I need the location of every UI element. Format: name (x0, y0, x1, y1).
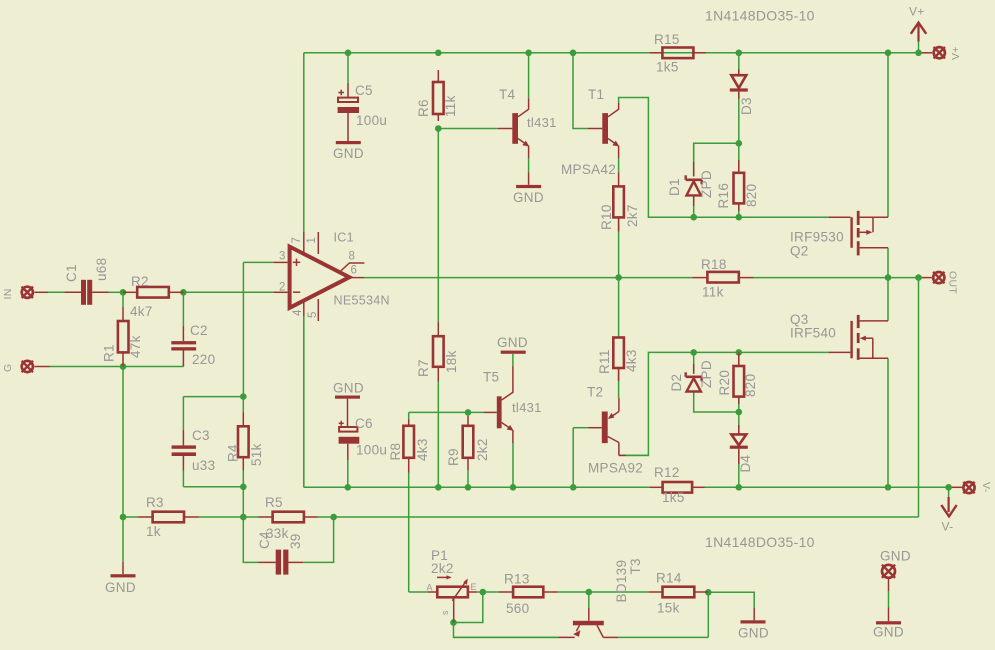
label T2 (587, 385, 603, 400)
svg-text:T3: T3 (628, 558, 643, 574)
svg-text:IRF9530: IRF9530 (790, 230, 844, 245)
wire T3 base drop (588, 592, 590, 608)
label Q2 (790, 244, 809, 259)
value 560 (506, 601, 529, 616)
label A (427, 583, 433, 593)
wire R3-R5 segment (123, 516, 259, 518)
svg-text:GND: GND (333, 146, 364, 161)
svg-text:R8: R8 (388, 443, 403, 461)
connector pad OUT (933, 272, 944, 283)
wire D3 column (738, 53, 740, 144)
wire R4 bottom node (242, 397, 244, 517)
wire Q3 source to V- rail (887, 358, 889, 487)
wire R8 to P1 (409, 473, 428, 592)
ground GND C5 (333, 141, 364, 161)
wire R13 to T3 base (558, 591, 589, 593)
wire R9 column (467, 412, 469, 487)
svg-text:GND: GND (497, 335, 528, 350)
svg-text:V-: V- (980, 482, 992, 493)
wire R14 right to GND (708, 592, 754, 608)
ground GND float (873, 621, 904, 639)
value u33 (192, 458, 215, 473)
svg-text:C5: C5 (355, 83, 373, 98)
svg-text:D1: D1 (667, 178, 682, 196)
value 51k (249, 443, 264, 466)
svg-text:11k: 11k (702, 285, 724, 300)
capacitor C2 (171, 326, 196, 367)
label IRF9530 (790, 230, 844, 245)
svg-text:8: 8 (349, 251, 356, 263)
svg-text:2k7: 2k7 (625, 204, 640, 227)
junction V- rail / T5 (510, 484, 517, 491)
label R1 (102, 344, 117, 362)
label E (471, 582, 477, 592)
svg-text:100u: 100u (356, 113, 387, 128)
svg-text:5: 5 (307, 311, 319, 318)
svg-text:MPSA42: MPSA42 (561, 162, 616, 177)
value ZPD D2 (699, 360, 714, 388)
ground GND T4 (513, 185, 544, 205)
svg-text:4k7: 4k7 (130, 304, 153, 319)
wire R13 line (498, 591, 500, 593)
label IC1 (334, 231, 354, 245)
value 11k (443, 95, 458, 117)
svg-text:IRF540: IRF540 (790, 326, 836, 341)
junction OUT rail / Q2-Q3 drains (885, 274, 892, 281)
resistor R12 (650, 482, 705, 493)
label R8 (388, 443, 403, 461)
junction V- rail / D4 (736, 484, 743, 491)
wire -input line (183, 291, 274, 293)
svg-text:ZPD: ZPD (699, 170, 714, 198)
transistor T3 (454, 608, 619, 637)
svg-text:GND: GND (880, 549, 911, 564)
label R4 (226, 444, 241, 462)
wire D2 column (694, 352, 739, 412)
wire C3 bottom link (183, 471, 243, 487)
capacitor C3 (172, 430, 196, 471)
junction OUT rail / feedback (915, 274, 922, 281)
value MPSA42 (561, 162, 616, 177)
svg-text:GND: GND (105, 580, 136, 595)
label C2 (190, 323, 208, 338)
svg-text:4k3: 4k3 (624, 349, 639, 372)
svg-text:D3: D3 (739, 97, 754, 115)
value MPSA92 (588, 461, 643, 476)
junction feedback / R3 left (120, 514, 127, 521)
value 2k7 (625, 204, 640, 227)
label C6 (355, 416, 373, 431)
label D2 (669, 374, 684, 392)
svg-text:R13: R13 (504, 572, 530, 587)
svg-text:C3: C3 (192, 428, 210, 443)
label V- bottom (942, 520, 954, 534)
wire V+ rail pad stub (919, 52, 933, 54)
label 1N4148DO35-10 top (705, 8, 815, 24)
connector pad V+ (934, 47, 945, 58)
junction V+ rail / Q2 source (885, 50, 892, 57)
connector pad G (22, 361, 50, 372)
svg-text:R12: R12 (654, 465, 680, 480)
svg-text:OUT: OUT (947, 271, 959, 294)
label R16 (716, 183, 731, 209)
pin 2 (279, 282, 286, 294)
svg-text:GND: GND (333, 381, 364, 396)
svg-text:1k5: 1k5 (656, 60, 679, 75)
svg-text:tl431: tl431 (527, 115, 557, 130)
resistor R1 (118, 307, 129, 367)
value 39 (288, 533, 303, 549)
wire OUT rail (364, 277, 919, 279)
label G (2, 364, 14, 372)
label R15 (654, 32, 680, 47)
svg-text:51k: 51k (249, 443, 264, 466)
junction V+ rail / C5 (345, 50, 352, 57)
value 820 R20 (743, 374, 758, 397)
potentiometer P1 (428, 575, 477, 622)
label V- pad (980, 482, 992, 493)
svg-text:R9: R9 (446, 448, 461, 466)
svg-text:GND: GND (873, 625, 904, 640)
wire R11 to T2 emitter (618, 368, 620, 398)
wire OUT pad stub (919, 277, 932, 279)
label R7 (416, 359, 431, 377)
svg-text:4: 4 (292, 309, 304, 316)
wire G line (50, 366, 184, 368)
transistor T2 (589, 398, 649, 456)
label 1N4148DO35-10 bottom (705, 534, 815, 550)
junction feedback / R5-C4 (330, 514, 337, 521)
junction op-amp +input node (240, 393, 247, 400)
wire OUT to Q3 drain (887, 278, 889, 321)
svg-text:R11: R11 (597, 349, 612, 374)
wire C2 column (182, 292, 184, 366)
resistor R15 (650, 48, 706, 59)
wire C6 bottom (347, 460, 349, 487)
svg-text:u33: u33 (192, 458, 215, 473)
resistor R18 (692, 272, 754, 283)
svg-text:ZPD: ZPD (699, 360, 714, 388)
svg-text:V-: V- (942, 520, 954, 534)
supply arrow V- (941, 487, 956, 516)
junction gate2 line / D2 (690, 349, 697, 356)
pin 6 (351, 265, 358, 277)
label T1 (588, 87, 604, 102)
wire Q2 source riser (887, 53, 889, 217)
svg-text:R5: R5 (265, 495, 283, 510)
svg-text:T4: T4 (499, 87, 516, 102)
svg-text:1k5: 1k5 (662, 490, 685, 505)
pin 3 (279, 251, 286, 263)
wire T5 collector to GND (512, 354, 514, 366)
mosfet Q3 (829, 315, 888, 360)
junction V+ rail / T4 collector (525, 50, 532, 57)
diode D3 (730, 69, 748, 99)
svg-text:220: 220 (192, 352, 215, 367)
label R5 (265, 495, 283, 510)
value 100u (356, 113, 387, 128)
label R18 (701, 257, 727, 272)
label P1 (431, 548, 448, 563)
junction feedback / R4-C4 (240, 514, 247, 521)
svg-text:G: G (2, 364, 14, 372)
junction V- rail / T2 base (570, 484, 577, 491)
wire T4 collector riser (528, 53, 530, 98)
value 4k3 R8 (415, 438, 430, 461)
wire R8-R9-T5 base line (409, 412, 484, 419)
svg-text:R1: R1 (102, 344, 117, 362)
value 15k (657, 601, 680, 616)
svg-text:C2: C2 (190, 323, 208, 338)
svg-text:C6: C6 (355, 416, 373, 431)
svg-text:GND: GND (738, 626, 769, 641)
wire T5 emitter down (512, 443, 514, 487)
junction V+ rail / R6 (435, 50, 442, 57)
resistor R3 (138, 512, 198, 523)
svg-text:2: 2 (279, 282, 286, 294)
svg-text:E: E (471, 582, 477, 592)
label C4 (257, 531, 272, 549)
junction gate line / D1 (690, 214, 697, 221)
label NE5534N (334, 294, 390, 308)
wire R11 column (618, 278, 620, 338)
svg-text:T1: T1 (588, 87, 604, 102)
junction gate2 line / R20 (736, 349, 743, 356)
label C5 (355, 83, 373, 98)
ground GND T5 top (497, 335, 528, 354)
wire D1 column (693, 143, 695, 217)
op-amp IC1 (274, 232, 364, 321)
svg-text:IC1: IC1 (334, 231, 354, 245)
junction D2-R20 bottom (736, 409, 743, 416)
svg-text:1N4148DO35-10: 1N4148DO35-10 (705, 534, 815, 550)
value 2k2 P1 (431, 561, 454, 576)
svg-text:R7: R7 (416, 359, 431, 377)
resistor R7 (433, 322, 444, 382)
junction V+ rail / D3 (736, 50, 743, 57)
label D3 (739, 97, 754, 115)
ground GND C6 top (333, 381, 364, 428)
resistor R16 (734, 160, 745, 211)
label R20 (717, 370, 732, 396)
label T5 (483, 370, 499, 385)
wire T1 base to V+ rail (573, 53, 588, 129)
junction R14 right (705, 589, 712, 596)
svg-text:D4: D4 (738, 454, 753, 472)
resistor R10 (613, 186, 624, 231)
value 1k5 R12 (662, 490, 685, 505)
value 820 (744, 184, 759, 207)
label R11 (597, 349, 612, 374)
svg-text:3: 3 (279, 251, 286, 263)
svg-text:s: s (440, 610, 450, 615)
resistor R9 (463, 416, 474, 470)
junction input node R2-C2 (180, 289, 187, 296)
label D1 (667, 178, 682, 196)
value 1k5 (656, 60, 679, 75)
label IRF540 (790, 326, 836, 341)
label R9 (446, 448, 461, 466)
wire T4 base line (438, 128, 498, 130)
junction P1 S (450, 619, 457, 626)
junction D3 bottom / R16 top (736, 140, 743, 147)
label IN (2, 288, 14, 299)
wire V+ rail (304, 53, 925, 232)
zener diode D2 (686, 364, 702, 392)
wire C5 stem (347, 53, 349, 83)
label R6 (416, 99, 431, 117)
svg-text:V+: V+ (950, 46, 962, 60)
label V+ pad (950, 46, 962, 60)
svg-text:T5: T5 (483, 370, 499, 385)
junction V- rail / R7 (435, 484, 442, 491)
junction V- rail / supply arrow (945, 484, 952, 491)
value tl431 T5 (512, 400, 542, 415)
junction V+ rail / supply arrow (915, 50, 922, 57)
svg-text:R2: R2 (131, 274, 149, 289)
svg-text:18k: 18k (444, 350, 459, 373)
resistor R13 (483, 587, 558, 598)
ground GND bottom-left (111, 562, 136, 578)
label R14 (656, 571, 682, 586)
value tl431 T4 (527, 115, 557, 130)
value ZPD D1 (699, 170, 714, 198)
svg-text:1: 1 (306, 237, 318, 244)
supply arrow V+ (911, 23, 926, 53)
value 2k2 R9 (475, 438, 490, 461)
junction G / R1 bottom (120, 363, 127, 370)
value 4k3 R11 (624, 349, 639, 372)
label C1 (64, 264, 79, 282)
connector pad V- (963, 482, 974, 493)
label T3 (628, 558, 643, 574)
wire T3 collector to R14 right (618, 592, 708, 637)
value 11k (702, 285, 724, 300)
svg-text:u68: u68 (94, 258, 109, 281)
svg-text:D2: D2 (669, 374, 684, 392)
svg-text:7: 7 (291, 237, 303, 244)
wire R7 bottom to V- rail (437, 382, 439, 488)
resistor R8 (403, 420, 414, 473)
junction V- rail / Q3 source (885, 484, 892, 491)
junction V- rail / R9 (465, 484, 472, 491)
value 47k (128, 335, 143, 358)
junction V- rail / C6 (345, 484, 352, 491)
label R3 (146, 495, 164, 510)
svg-text:R6: R6 (416, 99, 431, 117)
value 18k (444, 350, 459, 373)
connector pad GND float (882, 565, 895, 622)
value 220 (192, 352, 215, 367)
pin 5 (307, 311, 319, 318)
junction V+ rail / T1 base (570, 50, 577, 57)
resistor R14 (648, 587, 708, 598)
label OUT (947, 271, 959, 294)
svg-text:MPSA92: MPSA92 (588, 461, 643, 476)
ground GND R14 (738, 608, 769, 641)
label s (440, 610, 450, 615)
svg-text:820: 820 (744, 184, 759, 207)
label R10 (599, 204, 614, 230)
label D4 (738, 454, 753, 472)
svg-text:C4: C4 (257, 531, 272, 549)
wire Q2 drain to OUT (887, 248, 889, 278)
label R2 (131, 274, 149, 289)
pin 1 (306, 237, 318, 244)
wire T2 base to V- rail (573, 428, 588, 488)
wire R1 top (122, 292, 124, 307)
svg-text:tl431: tl431 (512, 400, 542, 415)
wire op-amp V- pin column (303, 316, 305, 487)
diode D4 (730, 425, 748, 464)
value 100u (356, 443, 387, 458)
wire R16 column (738, 143, 740, 217)
label T4 (499, 87, 516, 102)
label C3 (192, 428, 210, 443)
zener diode D1 (686, 162, 702, 206)
junction R4 bottom / C3 (240, 484, 247, 491)
svg-text:R10: R10 (599, 204, 614, 230)
wire S to T3 emitter (454, 623, 559, 638)
capacitor C6 (339, 421, 360, 460)
value u68 (94, 258, 109, 281)
svg-text:2k2: 2k2 (431, 561, 454, 576)
capacitor C5 (338, 83, 359, 141)
wire D1-R16 top link (694, 143, 739, 176)
svg-text:NE5534N: NE5534N (334, 294, 390, 308)
svg-text:IN: IN (2, 288, 14, 299)
wire T3 base to R14 (589, 591, 649, 593)
transistor T1 (588, 103, 619, 186)
wire R6-R7 column (437, 129, 439, 323)
svg-text:100u: 100u (356, 443, 387, 458)
junction C1-R2-R1 (120, 289, 127, 296)
wire P1 E branch (454, 592, 483, 623)
wire C3 top link (183, 397, 243, 430)
svg-text:C1: C1 (64, 264, 79, 282)
junction R13 / T3 base (586, 589, 593, 596)
svg-text:1k: 1k (146, 524, 161, 539)
svg-text:R20: R20 (717, 370, 732, 396)
svg-text:Q2: Q2 (790, 244, 809, 259)
wire R20 column (738, 352, 740, 412)
resistor R11 (613, 338, 624, 382)
resistor R20 (734, 352, 745, 404)
wire input node (48, 291, 65, 293)
junction R9 top (465, 409, 472, 416)
wire D4 column (738, 412, 740, 487)
wire +input riser (243, 262, 274, 396)
mosfet Q2 (829, 211, 888, 256)
label Q3 (790, 312, 809, 327)
svg-text:R18: R18 (701, 257, 727, 272)
resistor R4 (238, 413, 249, 471)
label V+ top (909, 5, 925, 19)
capacitor C1 (65, 280, 124, 305)
resistor R5 (243, 512, 333, 523)
resistor R2 (123, 287, 183, 298)
pin 7 (291, 237, 303, 244)
svg-text:47k: 47k (128, 335, 143, 358)
capacitor C4 (243, 517, 333, 575)
svg-text:2k2: 2k2 (475, 438, 490, 461)
svg-text:15k: 15k (657, 601, 680, 616)
svg-text:R4: R4 (226, 444, 241, 462)
svg-text:R15: R15 (654, 32, 680, 47)
svg-text:1N4148DO35-10: 1N4148DO35-10 (705, 8, 815, 24)
svg-text:BD139: BD139 (614, 560, 629, 603)
wire V- rail pad stub (949, 486, 963, 488)
